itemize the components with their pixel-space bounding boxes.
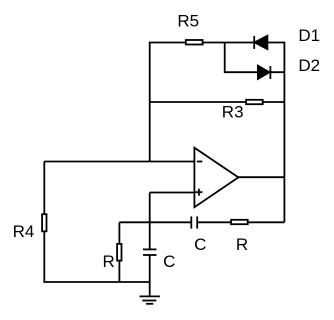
svg-text:R4: R4 [13, 222, 35, 241]
svg-text:R: R [236, 235, 248, 254]
svg-text:R5: R5 [177, 12, 199, 31]
svg-text:C: C [163, 252, 175, 271]
svg-text:R: R [103, 252, 115, 271]
svg-text:D1: D1 [298, 26, 320, 45]
svg-text:R3: R3 [222, 103, 244, 122]
svg-text:C: C [194, 235, 206, 254]
svg-text:D2: D2 [298, 56, 320, 75]
